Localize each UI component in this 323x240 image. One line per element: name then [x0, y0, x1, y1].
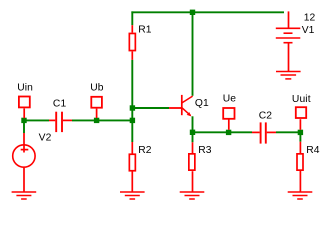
wire base row	[132, 107, 169, 109]
capacitor C2	[252, 110, 276, 143]
node junction Uuit	[298, 130, 303, 135]
svg-text:R4: R4	[306, 145, 320, 156]
wire left column middle (R1 to R2)	[131, 60, 133, 142]
svg-text:C1: C1	[53, 99, 67, 110]
wire collector column	[192, 12, 194, 96]
svg-text:R3: R3	[198, 145, 212, 156]
transistor Q1	[169, 95, 209, 117]
svg-text:R2: R2	[138, 145, 152, 156]
svg-text:Q1: Q1	[195, 98, 209, 109]
ground R2	[120, 192, 145, 199]
resistor R2	[129, 142, 151, 192]
ground V1	[276, 72, 301, 79]
svg-text:V2: V2	[39, 133, 52, 144]
wire R4 column	[299, 132, 301, 141]
node junction Uin	[21, 118, 26, 123]
svg-text:12: 12	[304, 13, 316, 24]
wire output row left	[193, 131, 253, 133]
node junction Ue	[226, 130, 231, 135]
node junction C1/base column	[130, 118, 135, 123]
wire left column upper (rail to R1)	[131, 11, 133, 25]
resistor R4	[297, 142, 320, 192]
wire Uin column	[23, 120, 25, 133]
node junction emitter	[190, 130, 195, 135]
node junction top rail/collector	[190, 10, 195, 15]
wire C1 row left	[24, 119, 49, 121]
resistor R1	[129, 25, 151, 60]
svg-text:Uin: Uin	[17, 83, 33, 94]
svg-text:R1: R1	[138, 25, 152, 36]
voltage pin Uuit	[292, 94, 311, 130]
wire emitter column	[192, 116, 194, 142]
capacitor C1	[49, 99, 72, 133]
svg-text:Ue: Ue	[223, 94, 237, 105]
ground V2	[12, 192, 37, 199]
node junction Ub	[94, 118, 99, 123]
voltage pin Ue	[223, 94, 237, 130]
voltage pin Ub	[90, 83, 104, 118]
wire C1 row right	[72, 119, 132, 121]
voltage source V2	[13, 133, 52, 192]
ground R3	[180, 192, 205, 199]
node junction base	[130, 105, 135, 110]
ground R4	[288, 192, 313, 199]
wire top rail	[131, 11, 284, 13]
battery V1	[276, 11, 316, 71]
svg-text:C2: C2	[259, 110, 273, 121]
wire output row right	[276, 131, 300, 133]
svg-text:Uuit: Uuit	[292, 94, 311, 105]
svg-text:V1: V1	[302, 25, 315, 36]
svg-text:Ub: Ub	[90, 83, 104, 94]
resistor R3	[189, 142, 212, 192]
voltage pin Uin	[17, 83, 33, 119]
